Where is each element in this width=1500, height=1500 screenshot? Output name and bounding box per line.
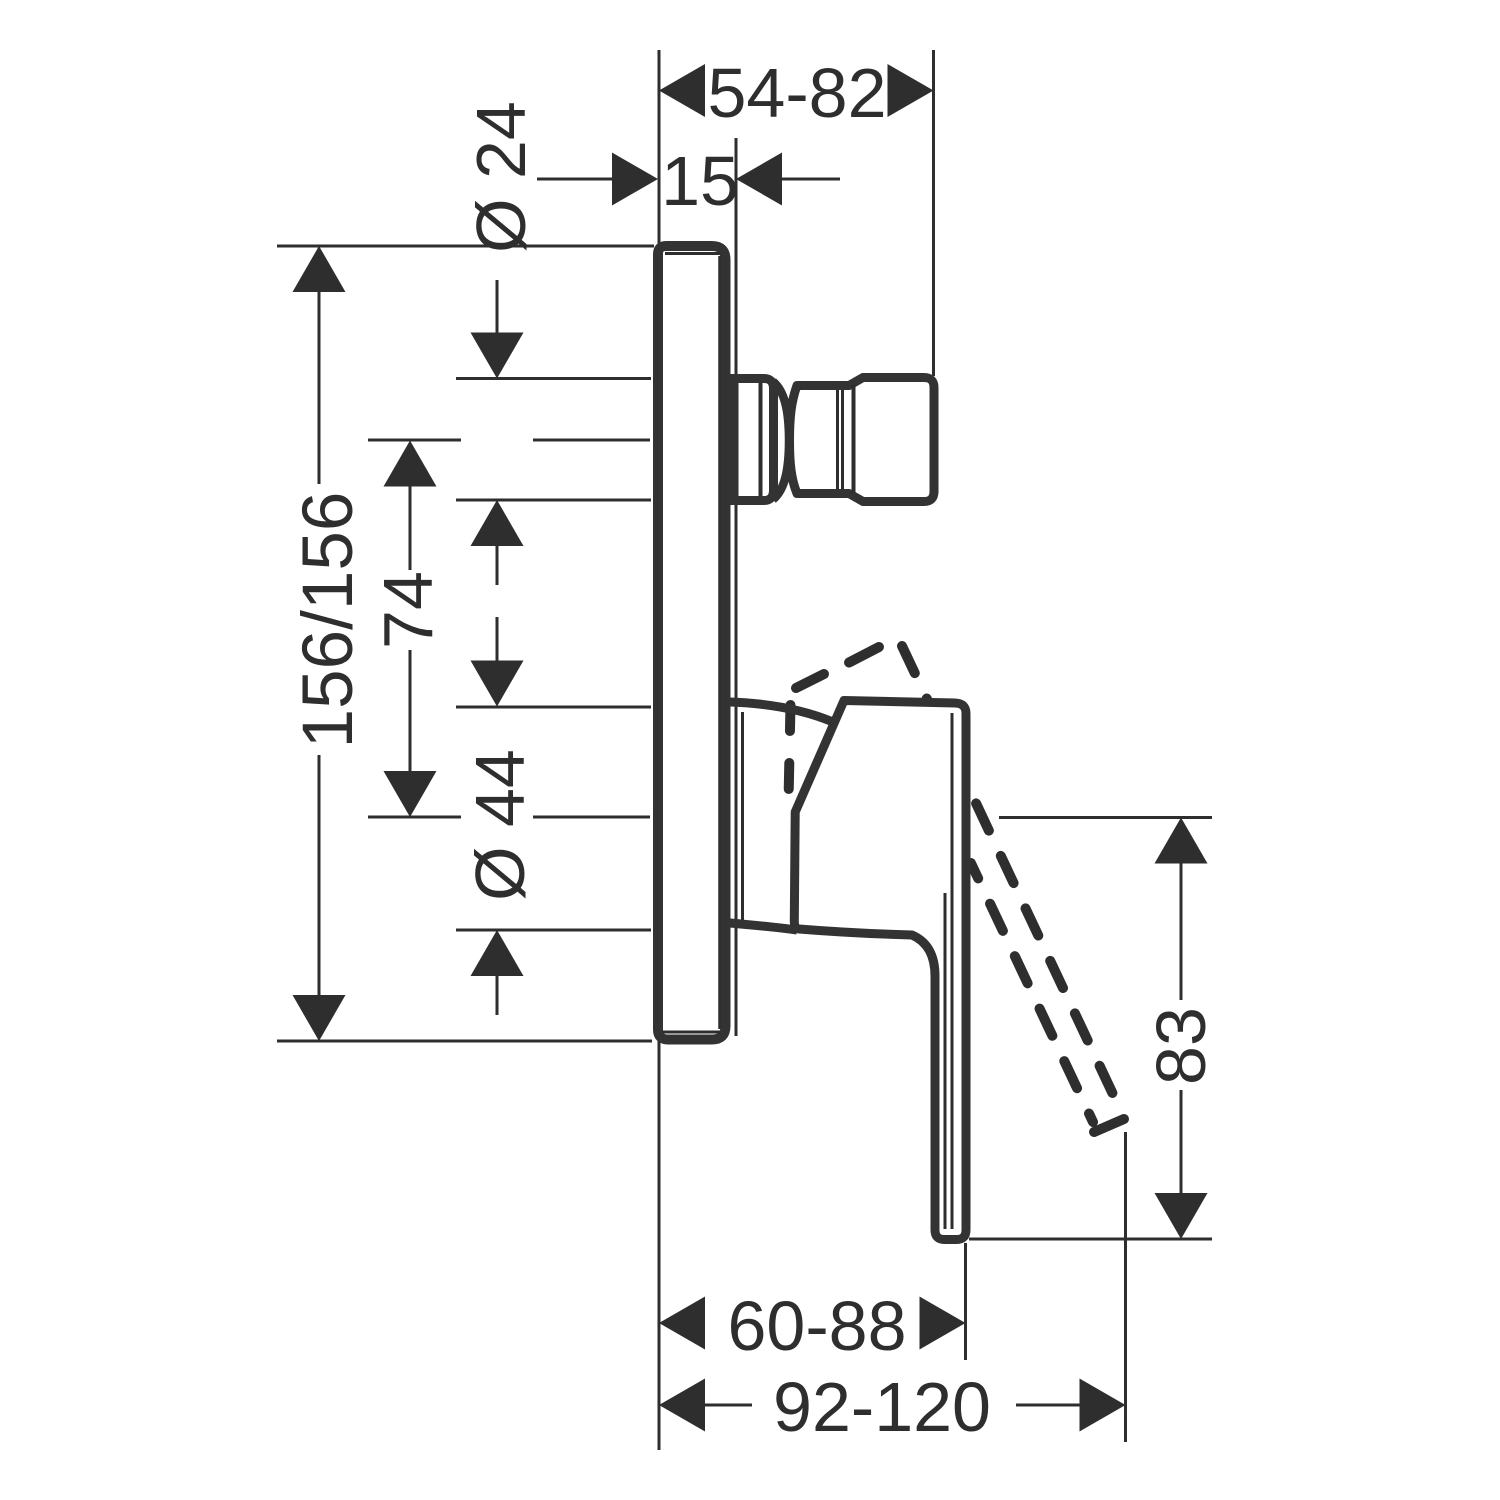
dashed lifted lever left edge xyxy=(971,863,1093,1122)
shaft 83 xyxy=(1180,861,1183,1195)
ref line spout top y=378.5 xyxy=(456,377,651,380)
spout waist ball xyxy=(773,382,789,500)
ref line rosette bottom y=930 xyxy=(456,929,651,932)
arrow 156 bottom xyxy=(293,995,346,1041)
shaft 15 left xyxy=(537,178,612,181)
dashed rosette edge xyxy=(789,705,791,801)
ref line plate bottom y=1041 xyxy=(277,1040,652,1043)
centerline spout y=440 xyxy=(368,439,650,442)
shaft 74 xyxy=(409,484,412,773)
shaft 156/156 xyxy=(318,290,321,997)
rosette (escutcheon of handle) xyxy=(730,702,833,930)
shaft diam44 xyxy=(496,617,499,1015)
dashed lifted head top edge xyxy=(796,647,879,688)
spout mid section and nut xyxy=(790,378,935,502)
plate (escutcheon side view) xyxy=(658,246,726,1040)
arrow 54-82 right xyxy=(888,64,934,117)
ref line spout bottom y=500 xyxy=(456,499,651,502)
svg-text:74: 74 xyxy=(369,571,447,649)
dashed lifted lever right edge xyxy=(902,646,1113,1093)
arrow diam24 bottom xyxy=(471,500,524,546)
svg-text:83: 83 xyxy=(1142,1007,1220,1085)
arrow 83 bottom xyxy=(1155,1193,1208,1239)
svg-text:92-120: 92-120 xyxy=(773,1368,991,1446)
spout neck xyxy=(734,379,774,501)
handle lever (side view) xyxy=(794,701,966,1240)
arrow 156 top xyxy=(293,246,346,292)
arrow diam44 bottom xyxy=(471,930,524,976)
centerline handle y=817 xyxy=(368,816,962,820)
svg-text:Ø 44: Ø 44 xyxy=(461,749,539,901)
arrow 15 left xyxy=(612,153,658,206)
hidden handle position (dashed) xyxy=(789,646,1125,1132)
svg-text:15: 15 xyxy=(661,142,739,220)
arrow diam24 top xyxy=(471,333,524,379)
arrow 60-88 right xyxy=(920,1297,966,1350)
ref line 83 top y=817.5 xyxy=(999,816,1212,819)
spout nut face line xyxy=(852,385,856,494)
ref line rosette top y=707 xyxy=(456,706,651,709)
arrow 83 top xyxy=(1155,818,1208,864)
spout joint lines xyxy=(838,390,843,489)
arrow 15 right xyxy=(736,153,782,206)
shaft 92-120 xyxy=(705,1404,1080,1407)
extension line dashed-lever end x=1125.5 xyxy=(1124,1132,1127,1442)
extension line right (spout end, x=933.5) xyxy=(932,50,935,376)
extension line left (plate left face, x=659) xyxy=(658,50,661,1450)
arrow 60-88 left xyxy=(659,1297,705,1350)
svg-text:156/156: 156/156 xyxy=(289,492,368,749)
arrow diam44 top xyxy=(471,661,524,707)
spout connector xyxy=(734,378,934,502)
arrow 92-120 left xyxy=(659,1379,705,1432)
arrow 74 top xyxy=(384,441,437,487)
arrow 74 bottom xyxy=(384,771,437,817)
ref line plate top y=246 xyxy=(277,245,654,248)
shaft diam24 xyxy=(496,280,499,585)
arrow 54-82 left xyxy=(659,64,705,117)
arrow 92-120 right xyxy=(1080,1379,1126,1432)
svg-text:54-82: 54-82 xyxy=(707,54,886,132)
svg-text:Ø 24: Ø 24 xyxy=(462,101,540,253)
svg-text:60-88: 60-88 xyxy=(727,1287,906,1365)
extension line lever bottom x=965.5 xyxy=(964,1243,967,1360)
wall plane line x=736 xyxy=(735,138,738,1036)
ref line 83 bottom y=1239 xyxy=(969,1238,1212,1241)
dashed lever end cap xyxy=(1094,1119,1124,1132)
shaft 15 right xyxy=(782,178,840,181)
